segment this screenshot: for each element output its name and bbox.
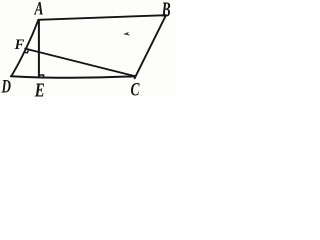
svg-text:E: E — [34, 80, 45, 102]
svg-text:B: B — [161, 0, 171, 21]
svg-text:C: C — [131, 80, 140, 101]
altitude FC — [25, 49, 135, 77]
svg-text:F: F — [14, 37, 25, 53]
right-angle mark at E — [39, 75, 43, 78]
right-angle mark at F — [24, 50, 29, 53]
altitude AE — [38, 20, 40, 77]
stray tick mark — [124, 32, 130, 35]
side DC — [11, 76, 136, 78]
side AB — [38, 15, 166, 20]
svg-text:A: A — [34, 0, 44, 20]
svg-text:D: D — [1, 77, 11, 98]
side BC — [135, 15, 166, 78]
background — [0, 0, 177, 101]
side AD — [11, 20, 38, 76]
